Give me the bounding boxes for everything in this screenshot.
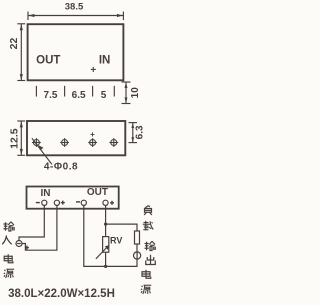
svg-text:IN: IN xyxy=(41,188,51,199)
svg-text:12.5: 12.5 xyxy=(9,128,21,149)
svg-text:IN: IN xyxy=(99,55,111,67)
svg-text:38.5: 38.5 xyxy=(65,2,84,13)
svg-text:6.3: 6.3 xyxy=(134,125,145,139)
svg-text:22: 22 xyxy=(8,38,20,50)
svg-text:+: + xyxy=(90,65,96,76)
svg-text:5: 5 xyxy=(101,90,107,101)
svg-text:OUT: OUT xyxy=(87,187,108,198)
svg-text:10: 10 xyxy=(130,87,141,99)
svg-text:RV: RV xyxy=(110,235,122,245)
svg-text:4-Φ0.8: 4-Φ0.8 xyxy=(44,162,78,173)
svg-text:38.0L×22.0W×12.5H: 38.0L×22.0W×12.5H xyxy=(8,288,115,300)
svg-text:OUT: OUT xyxy=(36,55,60,67)
svg-text:+: + xyxy=(90,130,95,139)
svg-text:6.5: 6.5 xyxy=(72,90,86,101)
svg-text:7.5: 7.5 xyxy=(44,90,58,101)
